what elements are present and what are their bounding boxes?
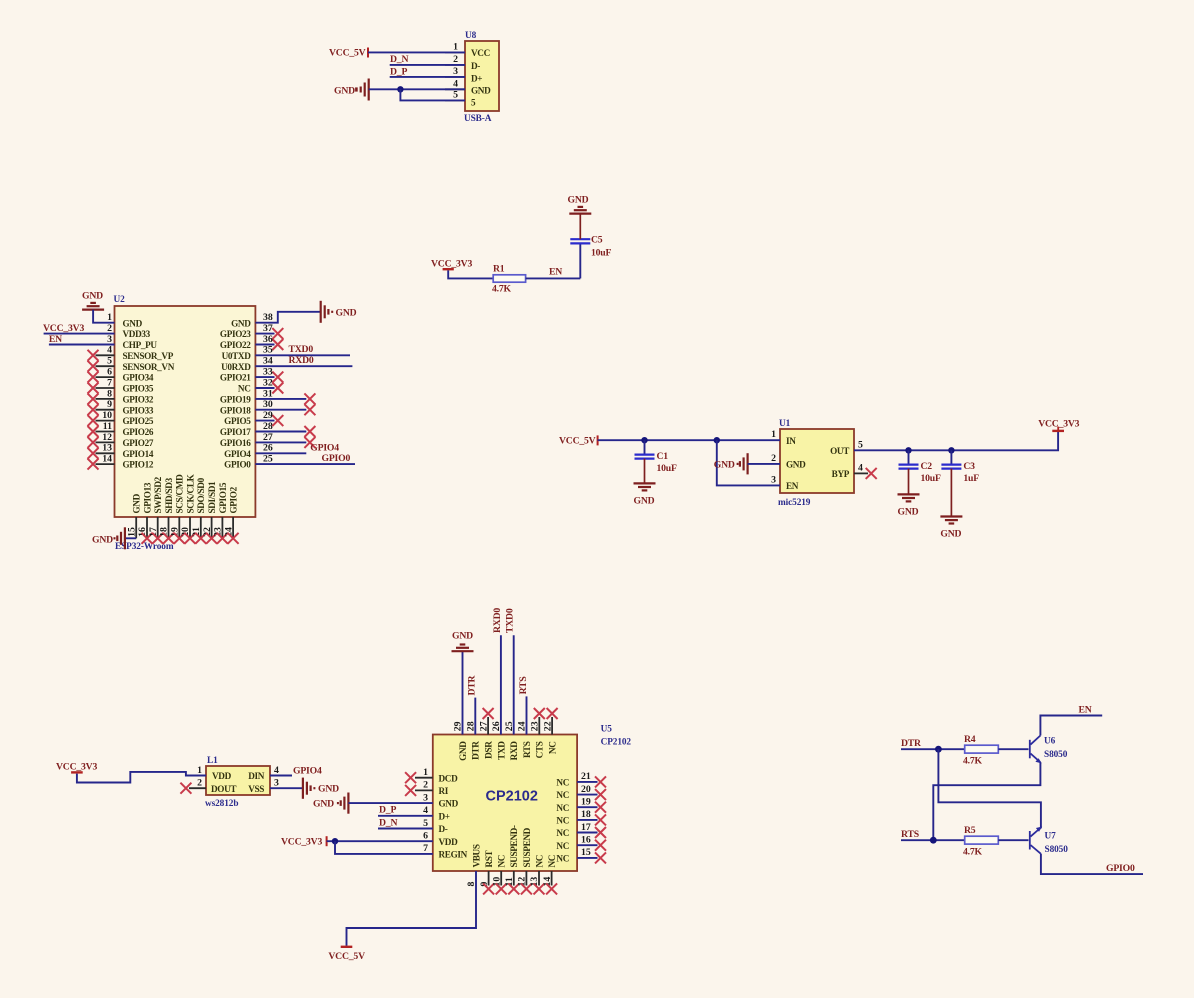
svg-text:NC: NC bbox=[548, 742, 558, 755]
svg-text:9: 9 bbox=[107, 399, 112, 410]
svg-text:2: 2 bbox=[107, 323, 112, 334]
svg-text:17: 17 bbox=[581, 822, 591, 833]
VCC_3V3 port bar bbox=[1052, 427, 1064, 433]
U2 pin 22 (SDI/SD1) bbox=[202, 481, 217, 544]
svg-text:C5: C5 bbox=[591, 235, 603, 246]
svg-text:32: 32 bbox=[263, 377, 273, 388]
svg-text:GPIO32: GPIO32 bbox=[123, 395, 154, 405]
pin 2 stub bbox=[445, 64, 465, 66]
VCC_3V3 port bar bbox=[71, 771, 83, 773]
svg-text:GPIO34: GPIO34 bbox=[123, 373, 154, 383]
svg-text:GPIO13: GPIO13 bbox=[142, 482, 152, 513]
svg-text:3: 3 bbox=[274, 778, 279, 789]
svg-text:16: 16 bbox=[137, 527, 148, 537]
connector U8 body bbox=[465, 41, 499, 111]
svg-text:U1: U1 bbox=[779, 419, 791, 429]
svg-text:DCD: DCD bbox=[439, 773, 459, 783]
net label GPIO4 at pin 26 bbox=[255, 442, 339, 453]
net label D_P at U5 pin 4 bbox=[378, 805, 433, 816]
U5 pin 8 (VBUS) bbox=[466, 844, 481, 886]
wire GND to U5 pin 3 bbox=[348, 802, 432, 804]
svg-text:D_P: D_P bbox=[390, 67, 407, 78]
svg-text:VDD33: VDD33 bbox=[123, 329, 151, 339]
svg-text:10uF: 10uF bbox=[921, 473, 941, 484]
svg-text:4.7K: 4.7K bbox=[963, 847, 983, 858]
svg-text:4: 4 bbox=[107, 345, 112, 356]
svg-text:SDO/SD0: SDO/SD0 bbox=[196, 477, 206, 513]
svg-text:VCC_5V: VCC_5V bbox=[559, 436, 596, 447]
svg-text:SHD/SD3: SHD/SD3 bbox=[164, 477, 174, 513]
svg-text:5: 5 bbox=[107, 356, 112, 367]
pin 5 stub bbox=[445, 99, 465, 101]
U2 pin 10 (GPIO25) bbox=[88, 410, 154, 426]
svg-text:2: 2 bbox=[771, 453, 776, 464]
pin 3 stub bbox=[445, 76, 465, 78]
U5 pin 15 (NC) bbox=[556, 847, 606, 863]
svg-text:GPIO0: GPIO0 bbox=[1106, 863, 1135, 874]
net port VCC_3V3 at U5 pin 6 bbox=[281, 836, 328, 847]
svg-text:30: 30 bbox=[263, 399, 273, 410]
U2 pin 31 (GPIO19) bbox=[220, 388, 315, 404]
svg-text:U0RXD: U0RXD bbox=[221, 362, 251, 372]
U2 pin 3 (CHP_PU) bbox=[107, 334, 157, 350]
svg-text:GND: GND bbox=[940, 529, 961, 540]
svg-text:VCC_3V3: VCC_3V3 bbox=[56, 761, 97, 772]
svg-text:7: 7 bbox=[107, 377, 112, 388]
no-connect X at BYP bbox=[866, 468, 877, 479]
U5 pin 27 (DSR) bbox=[478, 708, 493, 759]
U2 pin 24 (GPIO2) bbox=[223, 486, 238, 543]
svg-text:SENSOR_VP: SENSOR_VP bbox=[123, 351, 174, 361]
svg-text:OUT: OUT bbox=[830, 446, 849, 456]
svg-text:SUSPEND: SUSPEND bbox=[522, 827, 532, 867]
no-connect X at L1 pin 2 bbox=[180, 783, 191, 794]
U2 pin 26 (GPIO4) bbox=[224, 443, 273, 459]
svg-text:VCC_5V: VCC_5V bbox=[328, 951, 365, 962]
U5 pin 18 (NC) bbox=[556, 809, 606, 825]
svg-text:3: 3 bbox=[453, 66, 458, 77]
svg-text:GND: GND bbox=[452, 630, 473, 641]
U5 pin 9 (RST) bbox=[479, 850, 494, 894]
svg-text:18: 18 bbox=[159, 527, 170, 537]
U5 pin 22 (NC) bbox=[542, 708, 557, 754]
svg-text:EN: EN bbox=[786, 481, 799, 491]
svg-text:R5: R5 bbox=[964, 825, 976, 836]
svg-text:GPIO33: GPIO33 bbox=[123, 405, 154, 415]
svg-text:GPIO23: GPIO23 bbox=[220, 329, 251, 339]
svg-text:VBUS: VBUS bbox=[471, 844, 481, 867]
svg-text:U5: U5 bbox=[601, 725, 613, 735]
wire down to C2 bbox=[908, 450, 910, 464]
svg-text:DOUT: DOUT bbox=[211, 784, 236, 794]
svg-text:C3: C3 bbox=[963, 461, 975, 472]
svg-text:GPIO22: GPIO22 bbox=[220, 340, 251, 350]
junction on RTS wire bbox=[930, 837, 937, 844]
net label GPIO0 at pin 25 bbox=[255, 453, 355, 464]
U5 pin 10 (NC) bbox=[491, 855, 506, 894]
IC U1 body bbox=[780, 429, 854, 493]
svg-text:U7: U7 bbox=[1045, 832, 1057, 842]
svg-text:GND: GND bbox=[336, 307, 357, 318]
svg-text:CTS: CTS bbox=[535, 741, 545, 758]
svg-text:GPIO5: GPIO5 bbox=[224, 416, 251, 426]
resistor R5 bbox=[965, 836, 999, 844]
junction at C2 bbox=[905, 447, 911, 453]
wire junction down to pin 5 bbox=[400, 89, 465, 100]
U5 pin 23 (CTS) bbox=[530, 708, 545, 758]
svg-text:NC: NC bbox=[556, 778, 569, 788]
svg-text:DTR: DTR bbox=[901, 738, 922, 749]
svg-text:21: 21 bbox=[581, 771, 591, 782]
svg-text:34: 34 bbox=[263, 356, 273, 367]
svg-text:ws2812b: ws2812b bbox=[205, 799, 238, 809]
svg-text:GPIO4: GPIO4 bbox=[224, 449, 251, 459]
svg-text:GND: GND bbox=[313, 799, 334, 810]
wire D_P to pin 3 bbox=[390, 76, 465, 78]
svg-text:D-: D- bbox=[439, 824, 448, 834]
svg-text:C1: C1 bbox=[657, 451, 669, 462]
wire junction down to U5 pin 7 REGIN bbox=[335, 841, 433, 854]
svg-text:EN: EN bbox=[49, 334, 62, 345]
U5 pin 21 (NC) bbox=[556, 771, 606, 787]
svg-text:20: 20 bbox=[581, 784, 591, 795]
svg-text:NC: NC bbox=[556, 803, 569, 813]
ground (left-pointing) at U1 pin 2 bbox=[714, 453, 748, 474]
svg-text:GND: GND bbox=[714, 460, 735, 471]
U2 pin 20 (SCK/CLK) bbox=[180, 473, 195, 543]
ground below C2 bbox=[898, 494, 920, 517]
svg-text:GND: GND bbox=[92, 535, 113, 546]
wire/net RXD0 at pin 34 bbox=[255, 355, 352, 366]
svg-text:GPIO2: GPIO2 bbox=[229, 486, 239, 513]
svg-text:RI: RI bbox=[439, 786, 449, 796]
U2 pin 16 (GPIO13) bbox=[137, 482, 152, 544]
svg-text:RTS: RTS bbox=[518, 676, 529, 694]
U2 pin 30 (GPIO18) bbox=[220, 399, 315, 415]
svg-text:VCC: VCC bbox=[471, 48, 490, 58]
ground (right-pointing) at U2 pin 38 bbox=[321, 301, 357, 323]
U2 pin 17 (SWP/SD2) bbox=[148, 476, 163, 543]
svg-text:GPIO26: GPIO26 bbox=[123, 427, 154, 437]
ground (up-pointing) above U2 pin 1 bbox=[82, 291, 104, 310]
svg-text:GPIO19: GPIO19 bbox=[220, 395, 251, 405]
transistor U6 S8050 bbox=[1030, 736, 1042, 764]
svg-text:RTS: RTS bbox=[522, 741, 532, 758]
svg-text:VDD: VDD bbox=[212, 771, 232, 781]
U2 pin 18 (SHD/SD3) bbox=[159, 477, 174, 543]
svg-text:GPIO4: GPIO4 bbox=[293, 765, 322, 776]
wire L1 pin 3 to GND bbox=[270, 787, 303, 789]
svg-text:11: 11 bbox=[103, 421, 112, 432]
svg-text:GPIO35: GPIO35 bbox=[123, 384, 154, 394]
wire U6 emitter down-left-down to RTS bbox=[933, 762, 1040, 840]
U5 pin 6 (VDD) bbox=[423, 831, 458, 847]
wire junction down to U1 pin 3 bbox=[717, 440, 780, 485]
svg-text:S8050: S8050 bbox=[1045, 845, 1069, 855]
svg-text:SCK/CLK: SCK/CLK bbox=[185, 473, 195, 513]
svg-text:14: 14 bbox=[102, 454, 112, 465]
IC L1 body bbox=[206, 766, 270, 795]
svg-text:29: 29 bbox=[263, 410, 273, 421]
wire U5 pin 8 VBUS to VCC_5V bbox=[347, 871, 477, 946]
svg-text:2: 2 bbox=[197, 778, 202, 789]
junction at EN branch bbox=[714, 437, 720, 443]
svg-text:DIN: DIN bbox=[248, 771, 265, 781]
U5 pin 25 (RXD) bbox=[504, 721, 519, 760]
U2 pin 11 (GPIO26) bbox=[88, 421, 154, 437]
U2 pin 1 (GND) bbox=[107, 312, 142, 328]
stem C3 to ground bbox=[950, 469, 952, 517]
svg-text:GPIO17: GPIO17 bbox=[220, 427, 251, 437]
svg-text:CHP_PU: CHP_PU bbox=[123, 340, 158, 350]
wire VCC_5V to U1 pin 1 bbox=[598, 439, 780, 441]
svg-text:38: 38 bbox=[263, 312, 273, 323]
svg-text:SWP/SD2: SWP/SD2 bbox=[153, 476, 163, 513]
U5 pin 24 (RTS) bbox=[517, 721, 532, 758]
U2 pin 14 (GPIO12) bbox=[88, 454, 154, 470]
svg-text:4.7K: 4.7K bbox=[963, 756, 983, 767]
junction on DTR wire bbox=[935, 746, 942, 753]
ground below C1 bbox=[634, 483, 656, 506]
svg-text:CP2102: CP2102 bbox=[601, 738, 632, 748]
U2 pin 9 (GPIO33) bbox=[88, 399, 154, 415]
U2 pin 15 (GND) bbox=[126, 493, 141, 538]
svg-text:IN: IN bbox=[786, 436, 796, 446]
svg-text:SENSOR_VN: SENSOR_VN bbox=[123, 362, 175, 372]
svg-text:20: 20 bbox=[180, 527, 191, 537]
U5 pin 14 (NC) bbox=[542, 855, 557, 894]
svg-text:1: 1 bbox=[107, 312, 112, 323]
wire R1 to C5 branch bbox=[526, 277, 581, 279]
svg-text:GND: GND bbox=[439, 799, 459, 809]
svg-text:1: 1 bbox=[423, 767, 428, 778]
wire VCC_3V3 to pin 2 bbox=[44, 333, 115, 335]
svg-text:RST: RST bbox=[484, 850, 494, 867]
svg-text:10uF: 10uF bbox=[657, 463, 677, 474]
svg-text:17: 17 bbox=[148, 527, 159, 537]
svg-text:VCC_3V3: VCC_3V3 bbox=[431, 258, 472, 269]
svg-text:RXD: RXD bbox=[509, 741, 519, 761]
wire U2 pin 38 to GND bbox=[255, 312, 320, 323]
svg-text:U0TXD: U0TXD bbox=[222, 351, 252, 361]
U5 pin 28 (DTR) bbox=[466, 721, 481, 760]
svg-text:16: 16 bbox=[581, 835, 591, 846]
transistor U7 S8050 (mirrored) bbox=[1030, 827, 1042, 854]
svg-text:D_P: D_P bbox=[379, 805, 396, 816]
svg-text:GPIO12: GPIO12 bbox=[123, 460, 154, 470]
wire U1 pin 5 OUT to VCC_3V3 bbox=[854, 432, 1058, 450]
svg-text:VDD: VDD bbox=[439, 837, 459, 847]
svg-text:GND: GND bbox=[132, 493, 142, 513]
svg-text:3: 3 bbox=[423, 792, 428, 803]
svg-text:GPIO0: GPIO0 bbox=[224, 460, 251, 470]
IC U2 body bbox=[115, 306, 256, 517]
svg-text:GPIO18: GPIO18 bbox=[220, 405, 251, 415]
U5 pin 12 (SUSPEND) bbox=[517, 827, 532, 894]
svg-text:2: 2 bbox=[453, 54, 458, 65]
svg-text:TXD0: TXD0 bbox=[505, 608, 516, 633]
svg-text:GPIO21: GPIO21 bbox=[220, 373, 251, 383]
wire D_N to pin 2 bbox=[390, 64, 465, 66]
capacitor C5 bbox=[570, 239, 590, 243]
svg-text:TXD0: TXD0 bbox=[289, 344, 314, 355]
ground (left-pointing) at U2 pin 15 bbox=[92, 527, 125, 549]
wire L1 pin 4 to GPIO4 bbox=[270, 775, 292, 777]
L1 pin 2 stub bbox=[189, 787, 206, 789]
svg-text:1uF: 1uF bbox=[963, 473, 979, 484]
svg-text:NC: NC bbox=[534, 855, 544, 868]
svg-text:26: 26 bbox=[263, 443, 273, 454]
wire VCC_5V to pin 1 bbox=[368, 51, 465, 53]
ground (right-pointing) at L1 pin 3 bbox=[303, 778, 339, 799]
U5 pin 13 (NC) bbox=[529, 855, 544, 894]
U5 pin 5 (D-) bbox=[423, 818, 448, 834]
VCC_5V port tick bbox=[597, 435, 599, 445]
svg-text:27: 27 bbox=[263, 432, 273, 443]
U5 pin 20 (NC) bbox=[556, 784, 606, 800]
resistor R1 bbox=[493, 275, 525, 282]
svg-text:C2: C2 bbox=[921, 461, 933, 472]
svg-text:RXD0: RXD0 bbox=[289, 355, 314, 366]
svg-text:NC: NC bbox=[556, 841, 569, 851]
wire down to C3 bbox=[950, 450, 952, 464]
wire RTS to R5 bbox=[901, 839, 965, 841]
svg-text:GND: GND bbox=[123, 318, 143, 328]
svg-text:GPIO27: GPIO27 bbox=[123, 438, 154, 448]
ground (up-pointing) above U5 pin 29 bbox=[452, 630, 474, 651]
svg-text:8: 8 bbox=[107, 388, 112, 399]
svg-text:13: 13 bbox=[102, 443, 112, 454]
wire TXD0 up from pin 25 (RXD) bbox=[513, 635, 515, 734]
svg-text:21: 21 bbox=[191, 527, 202, 537]
svg-text:33: 33 bbox=[263, 367, 273, 378]
ground below C3 bbox=[940, 517, 962, 540]
svg-text:GND: GND bbox=[568, 194, 589, 205]
svg-text:CP2102: CP2102 bbox=[486, 789, 538, 805]
U2 pin 12 (GPIO27) bbox=[88, 432, 154, 448]
svg-text:3: 3 bbox=[107, 334, 112, 345]
ground (left-pointing) at USB pin 4 bbox=[334, 79, 369, 101]
svg-text:TXD: TXD bbox=[496, 741, 506, 760]
net label D_N at U5 pin 5 bbox=[378, 817, 433, 828]
svg-text:EN: EN bbox=[549, 266, 562, 277]
resistor R4 bbox=[965, 745, 999, 753]
stem C5 to ground bbox=[579, 214, 581, 240]
U5 pin 7 (REGIN) bbox=[423, 843, 467, 859]
svg-text:RXD0: RXD0 bbox=[492, 608, 503, 633]
U2 pin 33 (GPIO21) bbox=[220, 367, 283, 383]
svg-text:GND: GND bbox=[634, 496, 655, 507]
svg-text:4: 4 bbox=[453, 78, 458, 89]
svg-text:37: 37 bbox=[263, 323, 273, 334]
svg-text:USB-A: USB-A bbox=[464, 114, 492, 124]
VCC_5V port tick bbox=[367, 48, 369, 58]
capacitor C3 bbox=[941, 465, 961, 469]
wire R5 to U7 base bbox=[998, 839, 1028, 841]
U5 pin 26 (TXD) bbox=[491, 721, 506, 760]
U5 pin 17 (NC) bbox=[556, 822, 606, 838]
svg-text:18: 18 bbox=[581, 809, 591, 820]
junction at C3 bbox=[948, 447, 954, 453]
VCC_3V3 port bar bbox=[443, 268, 454, 270]
svg-text:U6: U6 bbox=[1044, 737, 1056, 747]
wire/net TXD0 at pin 35 bbox=[255, 344, 350, 355]
svg-text:mic5219: mic5219 bbox=[778, 498, 811, 508]
svg-text:NC: NC bbox=[556, 854, 569, 864]
U5 pin 1 (DCD) bbox=[405, 767, 458, 783]
svg-text:GND: GND bbox=[458, 741, 468, 761]
svg-text:4: 4 bbox=[274, 765, 279, 776]
svg-text:DSR: DSR bbox=[484, 741, 494, 759]
svg-text:GND: GND bbox=[898, 507, 919, 518]
svg-text:GND: GND bbox=[82, 291, 103, 302]
pin 1 stub bbox=[445, 51, 465, 53]
U2 pin 13 (GPIO14) bbox=[88, 443, 154, 459]
svg-text:VSS: VSS bbox=[248, 784, 264, 794]
wire down to C1 bbox=[644, 440, 646, 454]
pin 4 stub bbox=[445, 88, 465, 90]
U5 pin 2 (RI) bbox=[405, 780, 449, 796]
svg-text:6: 6 bbox=[107, 367, 112, 378]
capacitor C1 bbox=[635, 455, 655, 459]
svg-text:GND: GND bbox=[318, 784, 339, 795]
wire DTR branch down-right-down to U7 emitter bbox=[938, 749, 1041, 828]
svg-text:15: 15 bbox=[581, 847, 591, 858]
ground (up-pointing) above C5 bbox=[568, 194, 592, 213]
U2 pin 4 (SENSOR_VP) bbox=[88, 345, 174, 361]
U2 pin 34 (U0RXD) bbox=[221, 356, 273, 372]
stem C2 to ground bbox=[908, 469, 910, 495]
svg-text:GND: GND bbox=[786, 460, 806, 470]
svg-text:NC: NC bbox=[556, 828, 569, 838]
U2 pin 32 (NC) bbox=[238, 377, 283, 393]
svg-text:28: 28 bbox=[263, 421, 273, 432]
svg-text:REGIN: REGIN bbox=[439, 850, 468, 860]
svg-text:4: 4 bbox=[423, 805, 428, 816]
svg-text:GPIO15: GPIO15 bbox=[218, 482, 228, 513]
svg-text:GND: GND bbox=[471, 86, 491, 96]
svg-text:3: 3 bbox=[771, 474, 776, 485]
svg-text:4: 4 bbox=[858, 462, 863, 473]
svg-text:S8050: S8050 bbox=[1044, 750, 1068, 760]
svg-text:BYP: BYP bbox=[832, 469, 850, 479]
U2 pin 21 (SDO/SD0) bbox=[191, 477, 206, 543]
U2 pin 29 (GPIO5) bbox=[224, 410, 283, 426]
U1 pin 4 BYP stub bbox=[854, 472, 868, 474]
svg-text:22: 22 bbox=[202, 527, 213, 537]
svg-text:7: 7 bbox=[423, 843, 428, 854]
U5 pin 29 (GND) bbox=[453, 721, 468, 761]
svg-text:35: 35 bbox=[263, 345, 273, 356]
svg-text:5: 5 bbox=[453, 89, 458, 100]
junction on GND wire bbox=[397, 86, 403, 92]
svg-text:GPIO4: GPIO4 bbox=[310, 442, 339, 453]
svg-text:1: 1 bbox=[453, 41, 458, 52]
wire DTR up from pin 28 bbox=[474, 698, 476, 735]
wire EN to pin 3 bbox=[49, 344, 115, 346]
U2 pin 35 (U0TXD) bbox=[222, 345, 273, 361]
svg-text:VCC_3V3: VCC_3V3 bbox=[43, 323, 84, 334]
wire GND to U1 pin 2 bbox=[748, 463, 780, 465]
svg-text:DTR: DTR bbox=[471, 741, 481, 760]
svg-text:31: 31 bbox=[263, 388, 273, 399]
wire DTR to R4 bbox=[901, 748, 965, 750]
svg-text:GPIO0: GPIO0 bbox=[322, 453, 351, 464]
junction at C1 bbox=[641, 437, 647, 443]
wire RXD0 up from pin 26 (TXD) bbox=[500, 635, 502, 734]
svg-text:U2: U2 bbox=[114, 295, 126, 305]
svg-text:12: 12 bbox=[102, 432, 112, 443]
